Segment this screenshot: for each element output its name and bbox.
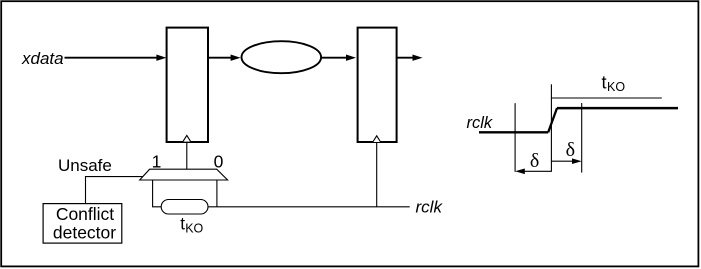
delta dimension arrow right bbox=[551, 158, 581, 164]
wire mux input 1 down to delay bbox=[153, 180, 162, 207]
register R2 bbox=[358, 28, 397, 142]
svg-text:xdata: xdata bbox=[21, 49, 64, 68]
waveform rclk high level bbox=[557, 107, 678, 110]
conflict detector box bbox=[43, 204, 122, 244]
tKO dimension line bbox=[551, 97, 661, 99]
marker line left bbox=[514, 103, 516, 172]
delta dimension arrow left bbox=[515, 169, 551, 175]
svg-text:t: t bbox=[602, 73, 607, 93]
marker line right bbox=[581, 103, 583, 173]
svg-text:rclk: rclk bbox=[416, 197, 444, 216]
register R1 bbox=[167, 28, 208, 142]
svg-text:1: 1 bbox=[152, 152, 162, 172]
svg-text:δ: δ bbox=[530, 150, 539, 172]
svg-text:δ: δ bbox=[566, 139, 575, 161]
wire mux input 0 down to rclk line bbox=[216, 180, 218, 207]
svg-text:KO: KO bbox=[185, 222, 203, 236]
wire Unsafe select to mux bbox=[86, 177, 143, 204]
svg-text:Unsafe: Unsafe bbox=[58, 156, 112, 175]
wire rclk up to R2 clock bbox=[376, 142, 378, 207]
combinational logic ellipse bbox=[241, 41, 321, 73]
tKO label (timing) bbox=[602, 73, 626, 94]
svg-text:rclk: rclk bbox=[467, 114, 493, 132]
waveform rising edge bbox=[548, 108, 557, 132]
svg-text:Conflict: Conflict bbox=[56, 204, 114, 224]
mux (trapezoid) bbox=[140, 169, 228, 180]
delay value label tKO bbox=[180, 214, 203, 236]
delay element tKO (capsule) bbox=[161, 200, 208, 215]
output wire of R2 (arrow) bbox=[397, 55, 423, 61]
wire rclk horizontal bbox=[208, 206, 410, 208]
wire R1 to combinational logic (arrow) bbox=[208, 55, 241, 61]
clock pin triangle of R2 bbox=[373, 136, 381, 142]
svg-text:0: 0 bbox=[214, 152, 224, 172]
waveform rclk low level bbox=[479, 131, 548, 133]
wire mux output to R1 clock bbox=[186, 142, 188, 169]
wire logic to register R2 (arrow) bbox=[321, 55, 356, 61]
wire xdata to register R1 (arrow) bbox=[65, 55, 167, 61]
marker line center bbox=[550, 84, 552, 172]
clock pin triangle of R1 bbox=[183, 135, 191, 141]
svg-text:KO: KO bbox=[607, 80, 625, 94]
svg-text:detector: detector bbox=[53, 222, 116, 242]
